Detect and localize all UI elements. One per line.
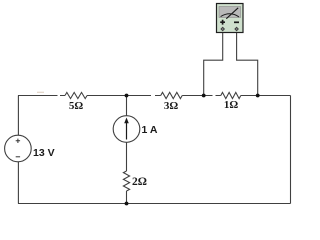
resistor R4 2Ω vertical <box>123 171 129 191</box>
svg-text:3Ω: 3Ω <box>164 100 179 112</box>
meter scale arc <box>221 14 239 17</box>
svg-text:2Ω: 2Ω <box>132 176 147 188</box>
wire left vertical <box>17 96 19 204</box>
voltage source polarity marks <box>16 139 20 157</box>
meter terminal left <box>220 27 225 32</box>
resistor R1 5Ω <box>65 92 87 98</box>
wire bottom <box>18 203 291 205</box>
meter display <box>219 7 241 18</box>
wire middle branch <box>126 96 128 204</box>
faint artifact dash <box>37 92 44 93</box>
voltage source V1 circle <box>5 135 32 162</box>
svg-text:5Ω: 5Ω <box>69 100 84 112</box>
meter needle <box>226 8 238 19</box>
meter plus label <box>220 20 225 25</box>
current source I1 arrow <box>124 118 129 140</box>
resistor R2 3Ω <box>161 92 183 98</box>
multimeter U1 body <box>217 4 244 33</box>
resistor R3 1Ω <box>221 92 241 98</box>
current source I1 circle <box>113 116 140 143</box>
wire meter left lead <box>204 30 223 96</box>
svg-text:13 V: 13 V <box>33 147 55 159</box>
node C junction dot (meter right tap) <box>256 94 260 98</box>
wire meter right lead <box>237 30 258 96</box>
svg-text:1Ω: 1Ω <box>224 99 239 111</box>
node B junction dot (meter left tap) <box>202 94 206 98</box>
svg-text:1 A: 1 A <box>142 124 158 136</box>
wire top <box>18 95 291 97</box>
wire right vertical <box>290 96 292 204</box>
node D junction dot (2Ω bottom) <box>125 202 129 206</box>
node A junction dot (current source top) <box>125 94 129 98</box>
meter minus label <box>234 21 239 23</box>
meter terminal right <box>234 27 239 32</box>
